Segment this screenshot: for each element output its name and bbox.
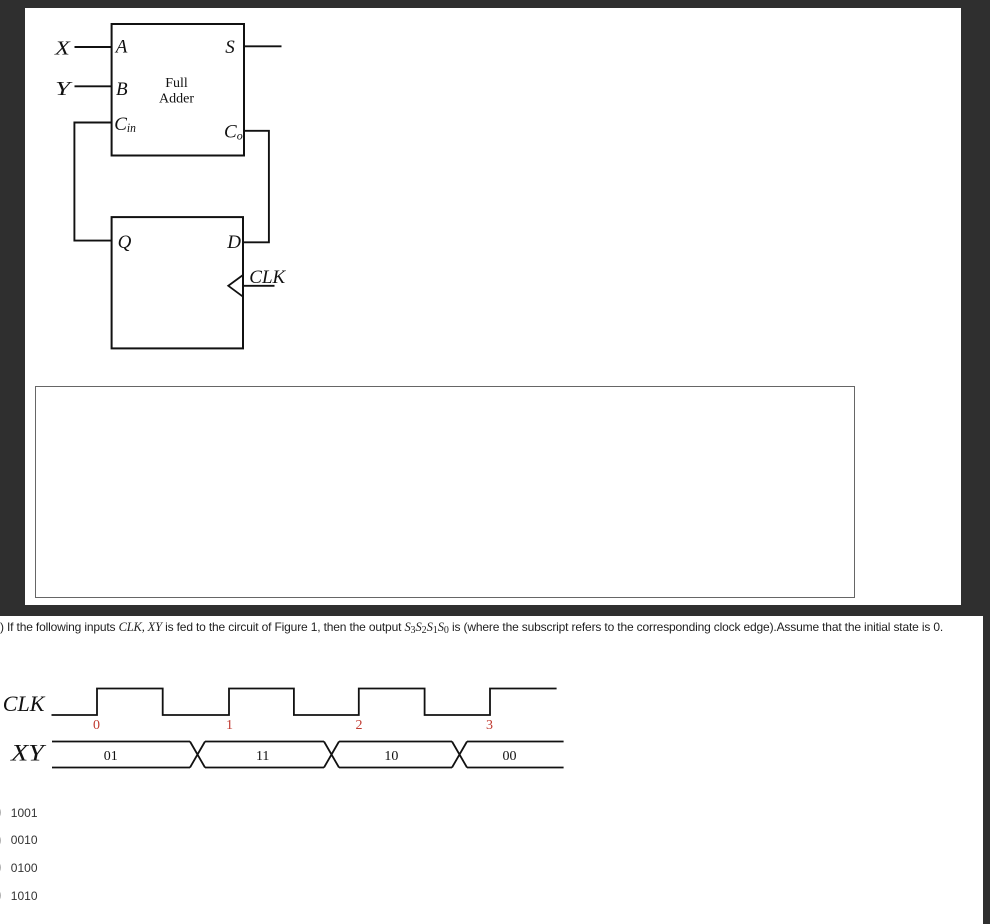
svg-text:D: D <box>226 232 241 253</box>
svg-text:Co: Co <box>224 122 243 143</box>
svg-text:S: S <box>225 37 235 58</box>
svg-text:10: 10 <box>384 749 398 764</box>
xy bus bottom rail <box>52 767 564 769</box>
option radio 2 (clipped) <box>0 833 1 848</box>
full adder U1 box <box>112 24 244 156</box>
svg-text:11: 11 <box>256 749 269 764</box>
wire X to A <box>75 46 112 48</box>
clock edge triangle <box>228 275 243 297</box>
svg-text:2: 2 <box>356 718 363 733</box>
bottom white panel <box>0 616 983 924</box>
option 1010 <box>11 889 38 903</box>
option 1001 <box>11 806 38 820</box>
svg-text:01: 01 <box>104 749 118 764</box>
d flip-flop U2 box <box>112 217 243 348</box>
bus crossover 3 <box>452 742 467 768</box>
wire Y to B <box>75 85 112 87</box>
timing diagram <box>0 615 990 924</box>
svg-text:X: X <box>54 38 71 60</box>
svg-text:CLK: CLK <box>3 691 46 716</box>
wire Q to Cin <box>74 123 111 241</box>
svg-text:Q: Q <box>118 232 132 253</box>
svg-text:0: 0 <box>93 718 100 733</box>
svg-text:XY: XY <box>10 740 47 765</box>
wire Co to D <box>243 131 269 243</box>
top white panel <box>25 8 961 605</box>
svg-text:1: 1 <box>226 718 233 733</box>
svg-text:00: 00 <box>503 749 517 764</box>
svg-text:Y: Y <box>55 78 73 100</box>
option radio 3 (clipped) <box>0 860 1 875</box>
question text <box>0 621 943 635</box>
option 0100 <box>11 861 38 875</box>
clk waveform <box>52 689 557 716</box>
option radio 4 (clipped) <box>0 888 1 903</box>
wire S output <box>244 45 282 47</box>
bus crossover 2 <box>324 742 339 768</box>
schematic of figure 1 <box>0 0 990 615</box>
bus crossover 1 <box>190 742 205 768</box>
option radio 1 (clipped) <box>0 805 1 820</box>
svg-text:Cin: Cin <box>114 114 136 135</box>
xy bus top rail <box>52 741 564 743</box>
wire CLK input <box>243 285 275 287</box>
svg-text:Adder: Adder <box>159 92 194 107</box>
empty figure placeholder box <box>35 386 855 598</box>
svg-text:B: B <box>116 79 128 100</box>
svg-text:Full: Full <box>165 76 188 91</box>
svg-text:3: 3 <box>486 718 493 733</box>
label Full Adder <box>159 76 194 107</box>
svg-text:A: A <box>114 37 128 58</box>
option 0010 <box>11 833 38 847</box>
